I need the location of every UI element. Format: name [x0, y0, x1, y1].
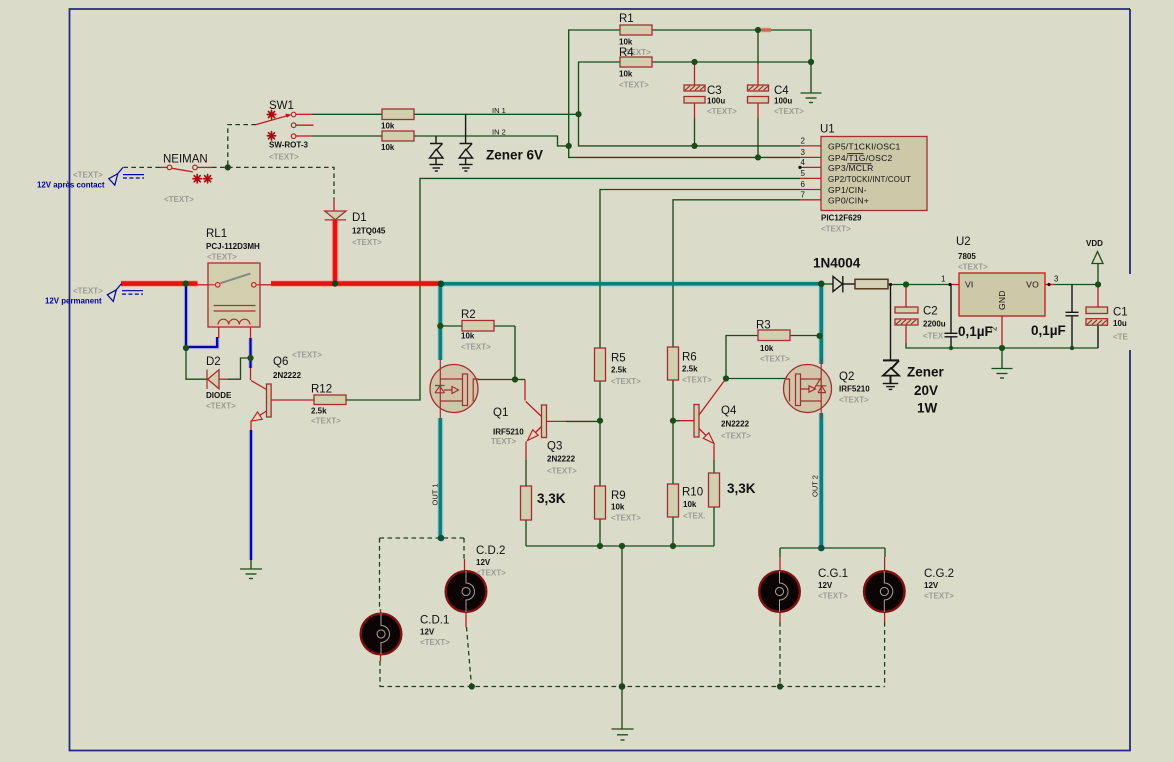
svg-text:DIODE: DIODE — [206, 391, 232, 400]
wire IN1 from SW1 to R4 net — [296, 113, 312, 115]
node C.D.2 drop/bottom — [469, 683, 475, 689]
svg-text:<TEX.: <TEX. — [683, 512, 705, 521]
svg-text:2200u: 2200u — [923, 320, 946, 329]
wire U2 pin1 stub — [950, 284, 959, 286]
svg-text:2.5k: 2.5k — [311, 407, 327, 416]
wire R4 right to ground vertical — [652, 61, 811, 63]
svg-text:<TEXT>: <TEXT> — [547, 467, 577, 476]
wire Q6 emitter stub — [250, 421, 252, 431]
wire 12V red bus relay to OUT1 node — [271, 281, 441, 286]
node D1/12V bus — [332, 281, 338, 287]
wire D1 anode stub — [333, 199, 335, 211]
dashed lamp box top edge — [380, 537, 465, 539]
resistor 3,3K right — [709, 473, 720, 507]
mosfet Q1 IRF5210 — [430, 359, 479, 419]
transistor Q4 2N2222 — [694, 379, 726, 444]
wire VDD riser — [1097, 264, 1099, 285]
svg-text:PCJ-112D3MH: PCJ-112D3MH — [206, 242, 260, 251]
ground bottom center — [612, 729, 634, 740]
wire Q2 gate to node — [726, 378, 786, 380]
svg-text:C.G.1: C.G.1 — [818, 568, 848, 580]
svg-text:VI: VI — [965, 280, 974, 290]
svg-text:12V après contact: 12V après contact — [37, 181, 105, 190]
dashed C.G.1 bottom drop — [779, 622, 781, 687]
dashed lamp box left edge lower — [379, 661, 381, 687]
terminal flag 12V apres contact — [109, 167, 144, 185]
wire R1 left to node GP4 vertical — [569, 30, 800, 157]
wire fuse to U2 VI — [888, 284, 950, 286]
wire R4 left to node GP5 — [579, 62, 801, 146]
wire Q4 emitter resistor bottom — [713, 507, 715, 546]
wire C3 top — [694, 62, 696, 85]
svg-text:D1: D1 — [352, 212, 367, 224]
dashed wire NEIMAN left to flag — [123, 166, 160, 168]
wire C.D.2 bottom stub — [465, 612, 467, 627]
wire relay pin stub left — [198, 284, 209, 286]
svg-text:GP4/T1G/OSC2: GP4/T1G/OSC2 — [828, 153, 893, 163]
wire C.D.1 top stub — [380, 609, 382, 613]
svg-text:<TEXT>: <TEXT> — [611, 377, 641, 386]
wire OUT2 teal vertical lower — [819, 413, 823, 548]
svg-text:GP5/T1CKI/OSC1: GP5/T1CKI/OSC1 — [828, 142, 901, 152]
wire C1 bottom to gnd bus — [1097, 326, 1099, 349]
svg-text:12V permanent: 12V permanent — [45, 297, 102, 306]
svg-text:12V: 12V — [420, 628, 435, 637]
svg-text:R4: R4 — [619, 47, 634, 59]
wire U2 pin3 stub — [1045, 284, 1054, 286]
svg-text:2.5k: 2.5k — [682, 365, 698, 374]
wire cap 0.1uF right branch — [1071, 285, 1073, 313]
wire Q6 collector stub — [250, 368, 252, 380]
wire U1 pin5 GP2 to R12 — [346, 178, 800, 400]
resistor 3,3K left — [521, 486, 532, 520]
wire bottom ground drop — [621, 687, 623, 729]
wire Q3 collector to gate node — [524, 380, 526, 401]
capacitor C2 2200u — [895, 307, 918, 325]
switch NEIMAN — [167, 165, 212, 183]
zener diode 20V — [883, 360, 899, 383]
svg-text:<TEXT>: <TEXT> — [420, 638, 450, 647]
ground U2 — [992, 369, 1013, 379]
capacitor C1 10u — [1086, 307, 1108, 325]
dashed lamp box left edge upper — [379, 538, 381, 609]
svg-text:Zener: Zener — [907, 365, 945, 380]
svg-text:0,1µF: 0,1µF — [958, 324, 993, 339]
svg-text:10k: 10k — [619, 70, 633, 79]
svg-text:0,1µF: 0,1µF — [1031, 323, 1066, 338]
wire IN2 from SW1 to R1 net — [296, 135, 312, 137]
wire NEIMAN stub left — [160, 166, 167, 168]
wire Q3 base to R5 node — [547, 420, 566, 422]
zener diode 6V #1 — [430, 144, 444, 165]
node R3/OUT2 — [816, 333, 822, 339]
node IN1/R4 — [575, 111, 581, 117]
ground zener1 — [430, 165, 444, 172]
wire C.G.2 top stub — [884, 548, 886, 557]
wire coil right blue to Q6 collector — [249, 338, 251, 368]
resistor 10k IN1 — [382, 109, 414, 120]
svg-text:C4: C4 — [774, 85, 789, 97]
svg-text:<TE: <TE — [1113, 333, 1129, 342]
wire C.G.1 bottom stub — [779, 613, 781, 623]
svg-text:R6: R6 — [682, 352, 697, 364]
wire Q4 emitter resistor top — [713, 445, 715, 461]
wire C.G.1 top stub — [779, 548, 781, 557]
wire R3 right to OUT2 — [790, 335, 820, 337]
wire teal +12V line OUT1 to diode — [441, 282, 821, 286]
svg-text:<TEXT>: <TEXT> — [619, 81, 649, 90]
U1 pin stubs — [800, 146, 821, 200]
resistor R10 — [668, 484, 679, 517]
node R4/C3 — [691, 59, 697, 65]
dashed wire SW1 common — [228, 125, 256, 168]
wire D2 anode net — [219, 378, 228, 380]
diode 1N4004 — [833, 276, 843, 292]
svg-text:C.G.2: C.G.2 — [924, 568, 954, 580]
capacitor 0.1uF left — [945, 333, 958, 337]
svg-text:<TEXT>: <TEXT> — [269, 153, 299, 162]
svg-text:<TEXT>: <TEXT> — [476, 569, 506, 578]
svg-text:3,3K: 3,3K — [537, 491, 566, 506]
wire R9 bottom to emitter bus — [599, 519, 601, 546]
node D2/Q6 collector — [247, 355, 253, 361]
wire R2 right — [494, 325, 515, 327]
ground Q6 — [240, 569, 262, 579]
svg-text:<TEXT>: <TEXT> — [821, 225, 851, 234]
svg-text:C1: C1 — [1113, 307, 1128, 319]
svg-text:OUT 1: OUT 1 — [431, 484, 440, 506]
wire R10 bottom to emitter bus — [672, 517, 674, 546]
svg-text:10k: 10k — [381, 122, 395, 131]
svg-text:<TEXT>: <TEXT> — [206, 402, 236, 411]
wire NEIMAN stub right — [198, 166, 213, 168]
svg-text:R5: R5 — [611, 353, 626, 365]
svg-text:2.5k: 2.5k — [611, 366, 627, 375]
node U2 gnd/bus — [999, 345, 1005, 351]
wire R2 vertical to gate node — [514, 326, 516, 380]
node C.G.1 drop/bottom — [777, 683, 783, 689]
svg-text:<TEXT>: <TEXT> — [164, 195, 194, 204]
node D2/blue — [183, 345, 189, 351]
ground zener 20V — [883, 384, 898, 390]
wire U1 pin7 GP0 down to R6 — [673, 200, 800, 347]
node C4/GP4 — [755, 154, 761, 160]
regulator U2 7805 — [959, 273, 1045, 316]
wire C.G. top tee — [780, 547, 885, 549]
node ground/bottom dashed — [619, 683, 626, 690]
svg-text:<TEXT>: <TEXT> — [611, 514, 641, 523]
svg-text:SW-ROT-3: SW-ROT-3 — [269, 141, 309, 150]
resistor R6 — [668, 347, 679, 380]
node OUT2/lamp tee — [818, 545, 825, 552]
svg-text:1: 1 — [941, 275, 946, 284]
svg-text:<TEXT>: <TEXT> — [721, 432, 751, 441]
node 12V/relay drive — [183, 281, 189, 287]
svg-text:10u: 10u — [1113, 319, 1127, 328]
mosfet Q2 IRF5210 — [784, 359, 832, 419]
svg-text:R2: R2 — [461, 309, 476, 321]
svg-text:IRF5210: IRF5210 — [493, 428, 524, 437]
svg-text:10k: 10k — [381, 143, 395, 152]
wire Q6 emitter blue to ground — [250, 430, 252, 560]
pin end markers — [798, 166, 801, 169]
capacitor C3 — [684, 85, 705, 103]
resistor R2 — [462, 321, 494, 332]
svg-text:12V: 12V — [476, 558, 491, 567]
node OUT1/12V — [438, 281, 445, 288]
node fuse/C2 — [903, 281, 909, 287]
dashed lamp box right edge — [463, 538, 465, 559]
capacitor 0.1uF right — [1066, 312, 1079, 316]
wire zener20V branch — [890, 285, 892, 361]
svg-text:D2: D2 — [206, 356, 221, 368]
svg-text:U2: U2 — [956, 236, 971, 248]
svg-text:1W: 1W — [917, 401, 938, 416]
wire OUT2 teal vertical upper — [819, 284, 823, 364]
wire C.D.1 bottom stub — [380, 655, 382, 661]
svg-text:U1: U1 — [820, 124, 835, 136]
node ground drop/bus — [619, 543, 625, 549]
dashed bottom return line — [380, 686, 886, 688]
svg-text:<TEXT>: <TEXT> — [682, 376, 712, 385]
svg-text:2N2222: 2N2222 — [273, 371, 302, 380]
node R1/C4 — [755, 27, 761, 33]
dashed C.D.2 bottom drop — [467, 627, 472, 687]
node R4/ground rail — [808, 59, 814, 65]
svg-text:PIC12F629: PIC12F629 — [821, 214, 862, 223]
diode D2 — [207, 370, 219, 390]
wire Q6 ground stub — [250, 560, 252, 569]
wire OUT1 teal vertical lower — [438, 418, 442, 538]
svg-text:2: 2 — [801, 137, 806, 146]
svg-text:100u: 100u — [774, 97, 792, 106]
svg-text:12V: 12V — [924, 581, 939, 590]
node OUT2/1N4004 — [818, 281, 825, 288]
svg-text:<TEXT>: <TEXT> — [707, 107, 737, 116]
wire C4 bottom to GP4 net — [757, 103, 759, 118]
wire U2 VO to VDD node — [1054, 284, 1098, 286]
svg-text:3,3K: 3,3K — [727, 481, 756, 496]
wire C.G.2 bottom stub — [884, 613, 886, 623]
wire relay drive blue from 12V node — [186, 285, 217, 347]
svg-text:<TEXT>: <TEXT> — [73, 287, 103, 296]
resistor R1 — [620, 25, 652, 35]
svg-text:<TEXT>: <TEXT> — [958, 263, 988, 272]
resistor R5 — [595, 348, 606, 381]
svg-text:R10: R10 — [682, 487, 703, 499]
svg-text:<TEXT>: <TEXT> — [818, 592, 848, 601]
svg-text:VO: VO — [1026, 280, 1039, 290]
wire bus to bottom ground — [621, 546, 623, 687]
node cap right/bus — [1070, 346, 1074, 350]
wire U2 ground drop — [1001, 348, 1003, 368]
lamp C.D.2 — [446, 571, 487, 612]
node OUT1/lamp box — [438, 535, 445, 542]
svg-text:GP2/T0CKI/INT/COUT: GP2/T0CKI/INT/COUT — [828, 174, 911, 184]
svg-text:RL1: RL1 — [206, 228, 227, 240]
svg-text:IN 1: IN 1 — [492, 106, 506, 115]
wire 12V permanent red bus left — [121, 281, 198, 286]
svg-text:C2: C2 — [923, 306, 938, 318]
svg-text:VDD: VDD — [1086, 239, 1103, 248]
svg-text:TEXT>: TEXT> — [491, 437, 516, 446]
svg-text:C3: C3 — [707, 85, 722, 97]
wire D1 cathode drop — [333, 220, 338, 284]
chip U1 PIC12F629 — [821, 137, 927, 211]
svg-text:R3: R3 — [756, 320, 771, 332]
highlight segment on R1 wire — [762, 28, 772, 32]
svg-text:R1: R1 — [619, 13, 634, 25]
svg-text:SW1: SW1 — [269, 100, 294, 112]
fuse body after 1N4004 — [855, 279, 888, 289]
svg-text:<TEXT>: <TEXT> — [760, 355, 790, 364]
ground C4 rail — [801, 93, 822, 103]
svg-text:6: 6 — [801, 180, 806, 189]
svg-text:Q6: Q6 — [273, 356, 288, 368]
wire R1 right to ground rail — [652, 30, 811, 93]
wire U1 pin6 GP1 down to R5 — [600, 190, 800, 349]
wire emitter ground bus — [526, 545, 714, 547]
svg-text:OUT 2: OUT 2 — [811, 475, 820, 497]
wire zener1 branch from IN2 — [435, 136, 437, 144]
wire C4 top — [757, 30, 759, 64]
svg-text:<TEXT>: <TEXT> — [839, 396, 869, 405]
node Q4 base — [670, 418, 676, 424]
wire 1N4004 to fuse — [843, 283, 855, 285]
svg-text:100u: 100u — [707, 97, 725, 106]
svg-text:Q4: Q4 — [721, 405, 737, 417]
switch SW1 — [256, 110, 314, 140]
wire teal node to 1N4004 — [821, 283, 833, 285]
svg-text:12TQ045: 12TQ045 — [352, 227, 386, 236]
svg-text:<TEXT>: <TEXT> — [352, 238, 382, 247]
svg-text:GP0/CIN+: GP0/CIN+ — [828, 196, 869, 206]
wire D2 cathode net — [186, 349, 207, 379]
svg-text:10k: 10k — [683, 500, 697, 509]
svg-text:2N2222: 2N2222 — [721, 420, 750, 429]
node NEIMAN/SW1 — [225, 164, 231, 170]
svg-text:10k: 10k — [611, 503, 625, 512]
wire R2 left to OUT1 — [440, 325, 462, 327]
lamp C.G.2 — [864, 571, 905, 612]
transistor Q3 2N2222 — [526, 402, 547, 441]
wire R5 bottom to Q3 base node — [599, 381, 601, 486]
node R9/bus — [597, 543, 603, 549]
node R10/bus — [670, 543, 676, 549]
svg-text:Q1: Q1 — [493, 407, 508, 419]
node C3/GP5 — [691, 143, 697, 149]
wire OUT1 teal vertical upper — [438, 284, 442, 360]
svg-text:Q2: Q2 — [839, 371, 854, 383]
svg-text:2N2222: 2N2222 — [547, 455, 576, 464]
zener diode 6V #2 — [459, 144, 473, 165]
ground zener2 — [459, 165, 473, 172]
svg-text:10k: 10k — [461, 332, 475, 341]
U1 overlines — [847, 154, 872, 164]
wire Q3 emitter resistor top — [525, 442, 527, 461]
wire C2 bottom to gnd bus — [905, 325, 907, 343]
resistor 10k IN2 — [382, 131, 414, 141]
svg-text:<TEX: <TEX — [923, 332, 944, 341]
svg-text:<TEXT>: <TEXT> — [461, 343, 491, 352]
wire C1 branch top — [1097, 285, 1099, 308]
lamp C.G.1 — [759, 571, 800, 612]
svg-text:7805: 7805 — [958, 252, 976, 261]
wire Q3 emitter resistor bottom — [525, 520, 527, 546]
svg-text:12V: 12V — [818, 581, 833, 590]
wire Q4 collector node up to R3 — [726, 336, 758, 379]
svg-text:Q3: Q3 — [547, 441, 562, 453]
svg-text:7: 7 — [801, 191, 806, 200]
dashed C.G.2 right edge — [884, 622, 886, 687]
wire U2 GND pin — [1001, 316, 1003, 348]
node Q1 gate — [512, 376, 518, 382]
wire halos — [121, 220, 821, 560]
resistor R3 — [758, 330, 790, 341]
capacitor C4 — [748, 85, 769, 103]
svg-text:IRF5210: IRF5210 — [839, 385, 870, 394]
wire Q4 base to R6 node — [680, 420, 699, 422]
svg-text:4: 4 — [801, 158, 806, 167]
wire R12 to Q6 base — [271, 399, 314, 401]
svg-text:3: 3 — [801, 148, 806, 157]
svg-text:C.D.1: C.D.1 — [420, 615, 449, 627]
wire Q1 gate to node — [478, 379, 516, 381]
svg-text:GND: GND — [997, 290, 1007, 310]
svg-text:R12: R12 — [311, 384, 332, 396]
svg-text:<TEXT>: <TEXT> — [292, 351, 322, 360]
node VDD/C1 — [1095, 281, 1101, 287]
svg-text:<TEXT>: <TEXT> — [924, 592, 954, 601]
wire relay pin stub right — [260, 284, 271, 286]
node R2/OUT1 — [437, 323, 443, 329]
wire C.D.2 top stub — [464, 559, 466, 571]
svg-text:Zener 6V: Zener 6V — [486, 148, 543, 163]
node Q3 base — [597, 418, 603, 424]
svg-text:<TEXT>: <TEXT> — [311, 417, 341, 426]
svg-text:10k: 10k — [619, 38, 633, 47]
relay RL1 — [208, 263, 260, 327]
svg-text:<TEXT>: <TEXT> — [774, 107, 804, 116]
svg-text:C.D.2: C.D.2 — [476, 545, 505, 557]
node Q4 collector / Q2 gate — [723, 375, 729, 381]
node IN2/R1 — [566, 143, 572, 149]
resistor R9 — [595, 486, 606, 519]
lamp C.D.1 — [361, 614, 402, 655]
node cap left/bus — [949, 346, 953, 350]
wire relay coil pin right — [250, 325, 252, 339]
terminal flag 12V permanent — [107, 284, 143, 302]
svg-text:3: 3 — [1054, 275, 1059, 284]
svg-text:<TEXT>: <TEXT> — [207, 253, 237, 262]
wire C3 bottom to GP5 net — [694, 103, 696, 118]
wire C2 branch top — [905, 285, 907, 308]
resistor R12 — [314, 395, 346, 405]
resistor R4 — [620, 57, 652, 67]
svg-text:GP3/MCLR: GP3/MCLR — [828, 163, 874, 173]
wire R6 bottom to Q4 base node — [672, 380, 674, 484]
svg-text:<TEXT>: <TEXT> — [73, 171, 103, 180]
transistor Q6 2N2222 — [251, 381, 271, 422]
wire zener2 branch from IN1 — [465, 114, 467, 143]
svg-text:1N4004: 1N4004 — [813, 256, 861, 271]
power flag VDD — [1092, 252, 1103, 264]
svg-text:20V: 20V — [914, 383, 938, 398]
svg-text:5: 5 — [801, 169, 806, 178]
svg-text:10k: 10k — [760, 344, 774, 353]
svg-text:R9: R9 — [611, 490, 626, 502]
wire cap 0.1uF left branch — [950, 285, 952, 334]
